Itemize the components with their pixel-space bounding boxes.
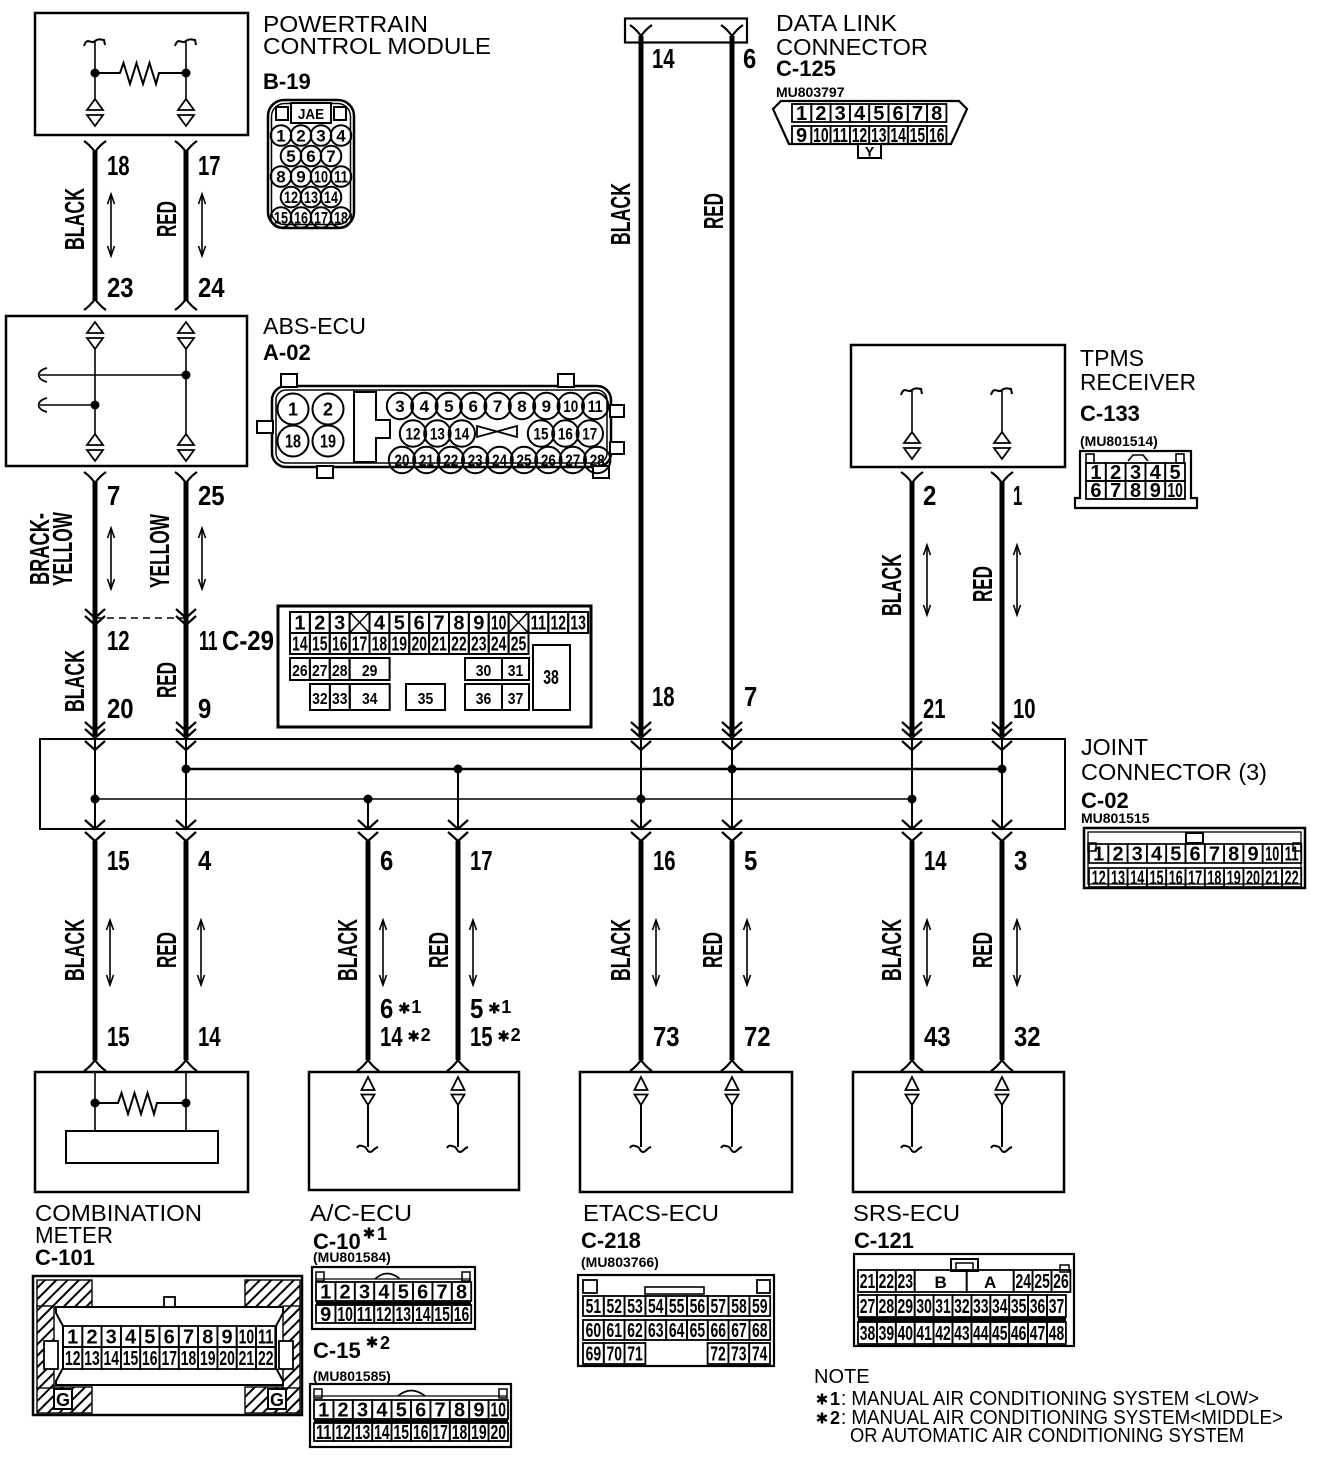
svg-text:20: 20 <box>1246 868 1260 890</box>
svg-text:9: 9 <box>296 168 305 187</box>
svg-text:8: 8 <box>454 1400 465 1422</box>
bus junction dot <box>637 795 646 804</box>
svg-text:BLACK: BLACK <box>59 919 90 981</box>
connector C-29 pinout (38-pin) <box>278 606 591 727</box>
svg-text:36: 36 <box>1030 1296 1046 1318</box>
wire BLACK joint pin15 -> 15 <box>93 841 98 1060</box>
svg-text:65: 65 <box>690 1320 706 1342</box>
svg-text:20: 20 <box>395 451 410 470</box>
svg-text:24: 24 <box>491 634 507 656</box>
svg-text:70: 70 <box>606 1344 622 1366</box>
svg-text:57: 57 <box>710 1296 726 1318</box>
svg-text:1: 1 <box>276 127 285 146</box>
box: JOINT CONNECTOR (3) C-02 <box>40 739 1065 829</box>
svg-text:9: 9 <box>320 1304 331 1326</box>
svg-text:BLACK: BLACK <box>332 919 363 981</box>
svg-text:1: 1 <box>288 400 298 420</box>
svg-text:61: 61 <box>606 1320 622 1342</box>
wire YELLOW ABS pin25 -> C-29 pin11 <box>175 472 197 483</box>
wire BLACK pin18 -> ABS pin23 <box>84 141 106 152</box>
svg-text:G: G <box>56 1390 70 1410</box>
svg-text:RED: RED <box>151 201 182 237</box>
joint connector entry wire <box>631 722 651 731</box>
svg-text:39: 39 <box>879 1323 895 1345</box>
svg-text:14: 14 <box>324 188 338 207</box>
svg-text:15: 15 <box>107 1021 130 1052</box>
svg-text:2: 2 <box>815 103 826 125</box>
connector C-15 pinout (20-pin) <box>310 1384 511 1447</box>
svg-text:14: 14 <box>292 634 308 656</box>
svg-text:5: 5 <box>873 103 884 125</box>
svg-text:33: 33 <box>332 691 348 708</box>
joint connector entry wire <box>902 722 922 731</box>
svg-text:6: 6 <box>468 397 477 416</box>
svg-text:16: 16 <box>929 125 945 147</box>
bidirectional arrow <box>926 920 928 985</box>
svg-text:25: 25 <box>517 451 532 470</box>
svg-text:72: 72 <box>710 1344 726 1366</box>
svg-text:31: 31 <box>935 1296 951 1318</box>
svg-text:24: 24 <box>1015 1271 1031 1293</box>
svg-text:6: 6 <box>380 845 393 876</box>
joint connector exit wire <box>731 769 733 829</box>
svg-text:9: 9 <box>473 1400 484 1422</box>
svg-text:C-125: C-125 <box>776 56 836 81</box>
svg-text:2: 2 <box>314 613 325 635</box>
svg-text:54: 54 <box>648 1296 664 1318</box>
svg-text:Y: Y <box>865 144 875 160</box>
svg-text:18: 18 <box>372 634 388 656</box>
svg-text:13: 13 <box>355 1422 371 1444</box>
svg-text:14: 14 <box>890 125 906 147</box>
svg-text:37: 37 <box>1049 1296 1065 1318</box>
svg-text:B: B <box>935 1273 947 1292</box>
svg-text:28: 28 <box>590 451 605 470</box>
svg-text:26: 26 <box>541 451 556 470</box>
intermediate connector C-29 crossing (dashed) <box>85 609 105 618</box>
svg-text:3: 3 <box>316 127 325 146</box>
svg-text:35: 35 <box>1011 1296 1027 1318</box>
svg-text:2: 2 <box>380 1333 390 1353</box>
connector C-218 pinout (74-pin) <box>578 1275 774 1366</box>
connector B-19 pinout (JAE 18-pin) <box>268 100 354 228</box>
svg-text:1: 1 <box>1093 844 1104 866</box>
svg-text:9: 9 <box>1150 480 1161 502</box>
ABS internal pin left (triangles, line, dot) <box>87 322 103 333</box>
svg-text:53: 53 <box>627 1296 643 1318</box>
svg-text:47: 47 <box>1030 1323 1046 1345</box>
wire BLACK DLC pin14 -> joint pin18 <box>630 25 652 36</box>
wire RED joint pin3 -> 32 <box>1000 841 1005 1060</box>
svg-text:28: 28 <box>879 1296 895 1318</box>
bidirectional arrow <box>110 528 112 589</box>
terminating resistor inside PCM <box>95 63 186 84</box>
ABS internal node line to left pin <box>40 404 95 406</box>
bus junction dot <box>728 765 737 774</box>
svg-text:MU801515: MU801515 <box>1081 810 1150 826</box>
bidirectional arrow <box>201 528 203 589</box>
bus junction dot <box>364 795 373 804</box>
svg-text:13: 13 <box>396 1304 412 1326</box>
svg-text:4: 4 <box>420 397 430 416</box>
svg-text:20: 20 <box>491 1422 507 1444</box>
svg-text:4: 4 <box>125 1327 137 1349</box>
svg-text:16: 16 <box>294 209 308 228</box>
svg-text:RED: RED <box>151 932 182 968</box>
svg-text:5: 5 <box>286 147 295 166</box>
svg-text:12: 12 <box>335 1422 351 1444</box>
svg-text:8: 8 <box>517 397 526 416</box>
svg-text:46: 46 <box>1011 1323 1027 1345</box>
svg-text:YELLOW: YELLOW <box>47 512 78 586</box>
svg-text:21: 21 <box>1265 868 1279 890</box>
svg-text:1: 1 <box>67 1327 78 1349</box>
svg-text:ABS-ECU: ABS-ECU <box>263 313 366 339</box>
svg-text:C-29: C-29 <box>222 625 274 656</box>
svg-text:3: 3 <box>359 1282 370 1304</box>
svg-text:7: 7 <box>433 613 444 635</box>
wire BLACK joint pin6 -> <box>366 841 371 1060</box>
joint connector exit wire <box>94 799 96 829</box>
svg-text:8: 8 <box>453 613 464 635</box>
svg-text:6: 6 <box>380 993 393 1024</box>
svg-text:7: 7 <box>1110 480 1121 502</box>
svg-text:32: 32 <box>312 691 328 708</box>
svg-text:17: 17 <box>314 209 328 228</box>
svg-text:31: 31 <box>508 663 524 680</box>
svg-text:14: 14 <box>374 1422 390 1444</box>
wire RED joint pin5 -> 72 <box>730 841 735 1060</box>
svg-text:16: 16 <box>1169 868 1183 890</box>
CAN bus line (BLACK) inside joint connector <box>95 798 912 800</box>
svg-text:45: 45 <box>992 1323 1008 1345</box>
svg-text:74: 74 <box>752 1344 768 1366</box>
svg-text:14: 14 <box>924 845 947 876</box>
svg-text:11: 11 <box>357 1304 373 1326</box>
C-101 housing <box>56 1307 283 1385</box>
svg-text:4: 4 <box>374 613 386 635</box>
svg-text:16: 16 <box>332 634 348 656</box>
svg-text:(MU801514): (MU801514) <box>1080 433 1158 449</box>
svg-text:7: 7 <box>912 103 923 125</box>
bidirectional arrow <box>1016 920 1018 985</box>
svg-text:15: 15 <box>123 1348 139 1370</box>
joint connector exit wire <box>457 769 459 829</box>
svg-text:5: 5 <box>144 1327 155 1349</box>
svg-text:9: 9 <box>542 397 551 416</box>
svg-text:14: 14 <box>198 1021 221 1052</box>
svg-text:3: 3 <box>334 613 345 635</box>
svg-text:8: 8 <box>456 1282 467 1304</box>
connector C-10 pinout (16-pin) <box>312 1267 475 1329</box>
svg-text:26: 26 <box>292 663 308 680</box>
svg-text:RED: RED <box>967 566 998 602</box>
svg-text:6: 6 <box>893 103 904 125</box>
bus junction dot <box>454 765 463 774</box>
wire BRACK-YELLOW ABS pin7 -> C-29 pin12 <box>84 472 106 483</box>
svg-text:12: 12 <box>406 425 421 444</box>
svg-text:11: 11 <box>258 1327 274 1349</box>
svg-text:TPMS: TPMS <box>1080 345 1144 371</box>
svg-text:22: 22 <box>443 451 458 470</box>
svg-text:9: 9 <box>198 693 211 724</box>
svg-text:14: 14 <box>1130 868 1145 890</box>
svg-text:27: 27 <box>860 1296 876 1318</box>
svg-text:26: 26 <box>1053 1271 1069 1293</box>
svg-text:12: 12 <box>376 1304 392 1326</box>
svg-text:11: 11 <box>1285 844 1299 866</box>
joint connector exit wire <box>911 799 913 829</box>
svg-text:71: 71 <box>627 1344 643 1366</box>
svg-text:18: 18 <box>452 1422 468 1444</box>
svg-text:30: 30 <box>476 663 492 680</box>
terminating resistor inside combination meter <box>95 1093 186 1114</box>
meter internal unit block <box>66 1131 218 1163</box>
connector C-02 pinout (22-pin) <box>1084 828 1305 890</box>
svg-text:21: 21 <box>419 451 434 470</box>
joint connector entry wire <box>722 722 742 731</box>
svg-text:43: 43 <box>924 1021 951 1052</box>
svg-text:8: 8 <box>202 1327 213 1349</box>
svg-text:8: 8 <box>931 103 942 125</box>
svg-text:7: 7 <box>183 1327 194 1349</box>
svg-text:25: 25 <box>1034 1271 1050 1293</box>
svg-text:8: 8 <box>1228 844 1239 866</box>
bidirectional arrow <box>110 194 112 256</box>
svg-text:YELLOW: YELLOW <box>144 514 175 588</box>
svg-text:1: 1 <box>320 1282 331 1304</box>
svg-text:CONTROL MODULE: CONTROL MODULE <box>263 33 491 59</box>
svg-text:21: 21 <box>860 1271 876 1293</box>
svg-text:15: 15 <box>107 845 130 876</box>
svg-text:17: 17 <box>198 150 221 181</box>
svg-text:13: 13 <box>1111 868 1125 890</box>
joint connector exit wire <box>367 799 369 829</box>
svg-text:12: 12 <box>284 188 298 207</box>
svg-text:4: 4 <box>376 1400 388 1422</box>
svg-text:SRS-ECU: SRS-ECU <box>853 1200 960 1226</box>
svg-text:2: 2 <box>323 400 333 420</box>
ECU box: TPMS RECEIVER <box>851 345 1065 467</box>
svg-text:24: 24 <box>492 451 507 470</box>
svg-text:JAE: JAE <box>298 106 324 123</box>
svg-text:6: 6 <box>414 613 425 635</box>
svg-text:17: 17 <box>352 634 368 656</box>
bus junction dot <box>91 795 100 804</box>
svg-text:18: 18 <box>285 432 301 452</box>
connector C-133 pinout (10-pin) <box>1075 451 1197 508</box>
svg-text:JOINT: JOINT <box>1081 734 1148 760</box>
svg-text:1: 1 <box>294 613 305 635</box>
svg-text:36: 36 <box>476 691 492 708</box>
svg-text:43: 43 <box>954 1323 970 1345</box>
svg-text:10: 10 <box>563 397 578 416</box>
svg-text:RED: RED <box>698 193 729 229</box>
svg-text:MU803797: MU803797 <box>776 84 845 100</box>
bidirectional arrow <box>200 920 202 985</box>
bidirectional arrow <box>109 920 111 985</box>
svg-text:7: 7 <box>437 1282 448 1304</box>
svg-text:2: 2 <box>923 480 936 511</box>
svg-text:BLACK: BLACK <box>876 919 907 981</box>
svg-text:42: 42 <box>935 1323 951 1345</box>
bus junction dot <box>998 765 1007 774</box>
svg-text:9: 9 <box>796 125 807 147</box>
bidirectional arrow <box>201 194 203 256</box>
svg-text:16: 16 <box>653 845 676 876</box>
svg-text:5: 5 <box>394 613 405 635</box>
svg-text:2: 2 <box>340 1282 351 1304</box>
svg-text:3: 3 <box>106 1327 117 1349</box>
svg-text:10: 10 <box>1167 480 1183 502</box>
svg-text:10: 10 <box>491 613 507 635</box>
ECU box: SRS-ECU <box>853 1072 1064 1192</box>
svg-text:RED: RED <box>151 662 182 698</box>
joint connector entry wire <box>85 722 105 731</box>
svg-text:18: 18 <box>334 209 348 228</box>
joint connector exit wire <box>1001 769 1003 829</box>
svg-text:24: 24 <box>198 272 225 303</box>
svg-text:25: 25 <box>511 634 527 656</box>
box: DATA LINK CONNECTOR <box>625 19 747 43</box>
svg-text:15: 15 <box>534 425 549 444</box>
ECU box: COMBINATION METER <box>35 1072 248 1192</box>
bidirectional arrow <box>655 920 657 985</box>
svg-text:15: 15 <box>1150 868 1164 890</box>
svg-text:7: 7 <box>744 681 757 712</box>
svg-text:A/C-ECU: A/C-ECU <box>310 1200 412 1226</box>
svg-text:14: 14 <box>380 1021 403 1052</box>
svg-text:15: 15 <box>910 125 926 147</box>
ETACS-ECU internal pin <box>635 1077 648 1090</box>
svg-text:20: 20 <box>219 1348 235 1370</box>
svg-text:21: 21 <box>923 693 946 724</box>
svg-text:DATA LINK: DATA LINK <box>776 10 898 36</box>
svg-text:73: 73 <box>653 1021 680 1052</box>
wire BLACK C-29 pin12 -> joint pin20 <box>93 618 98 736</box>
keying bowtie in A-02 <box>477 426 517 437</box>
svg-text:51: 51 <box>586 1296 602 1318</box>
svg-text:14: 14 <box>652 43 675 74</box>
SRS-ECU internal pin <box>906 1077 919 1090</box>
svg-text:15: 15 <box>274 209 288 228</box>
svg-text:18: 18 <box>652 681 675 712</box>
svg-text:16: 16 <box>142 1348 158 1370</box>
svg-text:7: 7 <box>493 397 502 416</box>
svg-text:G: G <box>270 1390 284 1410</box>
svg-text:C-121: C-121 <box>854 1228 914 1253</box>
svg-text:72: 72 <box>744 1021 771 1052</box>
ETACS-ECU internal pin <box>726 1077 739 1090</box>
svg-text:2: 2 <box>830 1408 840 1428</box>
svg-text:7: 7 <box>107 480 120 511</box>
svg-text:10: 10 <box>1265 844 1279 866</box>
svg-text:7: 7 <box>1209 844 1220 866</box>
svg-text:9: 9 <box>473 613 484 635</box>
ABS internal pin right <box>178 322 194 333</box>
svg-text:1: 1 <box>318 1400 329 1422</box>
wire RED DLC pin6 -> joint pin7 <box>721 25 743 36</box>
svg-text:32: 32 <box>954 1296 970 1318</box>
svg-text:7: 7 <box>435 1400 446 1422</box>
svg-text:29: 29 <box>897 1296 913 1318</box>
svg-text:5: 5 <box>396 1400 407 1422</box>
svg-text:7: 7 <box>326 147 335 166</box>
svg-text:22: 22 <box>258 1348 274 1370</box>
svg-text:6: 6 <box>306 147 315 166</box>
svg-text:23: 23 <box>107 272 134 303</box>
svg-text:11: 11 <box>531 613 547 635</box>
svg-text:5: 5 <box>444 397 453 416</box>
ABS internal node line to right pin <box>40 374 186 376</box>
svg-text:C-15: C-15 <box>313 1338 361 1363</box>
svg-text:27: 27 <box>312 663 328 680</box>
svg-text:9: 9 <box>222 1327 233 1349</box>
wire RED TPMS pin1 -> joint pin10 <box>991 472 1013 483</box>
svg-text:41: 41 <box>916 1323 932 1345</box>
TPMS internal pin 1 <box>991 388 1012 395</box>
svg-text:13: 13 <box>84 1348 100 1370</box>
svg-text:B-19: B-19 <box>263 69 311 94</box>
ECU box: ABS-ECU <box>6 316 247 466</box>
bidirectional arrow <box>746 920 748 985</box>
svg-text:16: 16 <box>558 425 573 444</box>
svg-text:17: 17 <box>470 845 493 876</box>
svg-text:10: 10 <box>1013 693 1036 724</box>
svg-text:6: 6 <box>743 43 756 74</box>
joint connector exit wire <box>640 799 642 829</box>
svg-text:8: 8 <box>276 168 285 187</box>
svg-text:32: 32 <box>1014 1021 1041 1052</box>
svg-text:14: 14 <box>454 425 469 444</box>
bidirectional arrow <box>382 920 384 985</box>
svg-text:56: 56 <box>690 1296 706 1318</box>
meter internal right lead <box>185 1072 187 1131</box>
CAN bus line (RED) inside joint connector <box>186 768 1002 770</box>
joint connector entry wire <box>992 722 1012 731</box>
svg-text:1: 1 <box>501 997 511 1017</box>
svg-text:11: 11 <box>334 168 348 187</box>
wire BLACK joint pin14 -> 43 <box>910 841 915 1060</box>
svg-text:2: 2 <box>338 1400 349 1422</box>
svg-text:34: 34 <box>992 1296 1008 1318</box>
svg-text:2: 2 <box>296 127 305 146</box>
svg-text:55: 55 <box>669 1296 685 1318</box>
connector C-125 pinout (OBD 16-pin) <box>773 101 967 160</box>
svg-text:BLACK: BLACK <box>876 554 907 616</box>
svg-text:17: 17 <box>582 425 597 444</box>
joint connector entry wire <box>176 722 196 731</box>
svg-text:RECEIVER: RECEIVER <box>1080 369 1196 395</box>
svg-text:1: 1 <box>377 1224 387 1244</box>
connector C-121 pinout (48-pin) <box>854 1254 1074 1346</box>
svg-text:48: 48 <box>1049 1323 1065 1345</box>
svg-text:33: 33 <box>973 1296 989 1318</box>
svg-text:10: 10 <box>314 168 328 187</box>
svg-text:18: 18 <box>1207 868 1221 890</box>
svg-text:13: 13 <box>304 188 318 207</box>
svg-text:20: 20 <box>411 634 427 656</box>
PCM internal pin 17 <box>175 39 196 46</box>
svg-text:23: 23 <box>468 451 483 470</box>
svg-text:18: 18 <box>107 150 130 181</box>
svg-text:A-02: A-02 <box>263 340 311 365</box>
svg-text:62: 62 <box>627 1320 643 1342</box>
bus junction dot <box>908 795 917 804</box>
svg-text:13: 13 <box>430 425 445 444</box>
svg-text:2: 2 <box>421 1025 431 1045</box>
svg-text:9: 9 <box>1247 844 1258 866</box>
